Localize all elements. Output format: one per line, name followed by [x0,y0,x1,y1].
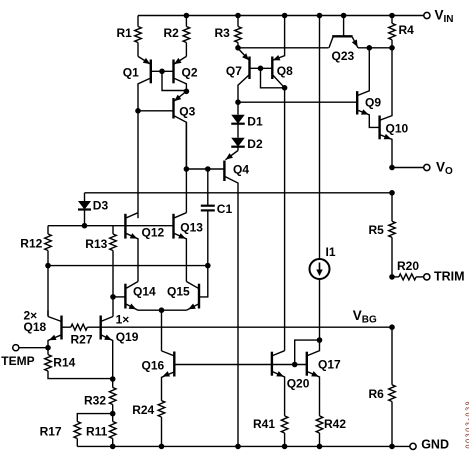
node: Q3 collector junction [184,166,190,172]
node: Q23 emitter junction [367,45,373,51]
svg-text:R2: R2 [164,26,180,40]
svg-text:TEMP: TEMP [1,354,34,368]
svg-text:R42: R42 [324,417,346,431]
wire: Q16/Q20/Q17 base rail [174,364,306,366]
svg-text:Q8: Q8 [277,64,293,78]
svg-text:R14: R14 [53,356,75,370]
svg-text:R5: R5 [369,223,385,237]
svg-text:Q3: Q3 [179,104,195,118]
wire: Q14/Q15 base bias [48,265,208,267]
node: R20 junction [389,274,395,280]
transistor Q18 (NPN mirrored) [48,310,62,347]
transistor Q17 (NPN, diode-connected) [295,340,341,416]
transistor Q3 (PNP) [138,91,196,169]
transistor Q1 (PNP) [123,56,151,110]
transistor Q19 (NPN) [101,297,139,380]
svg-text:Q2: Q2 [182,66,198,80]
transistor Q15 (NPN mirrored) [167,266,208,311]
transistor Q14 (NPN) [113,282,156,311]
resistor R4 [389,16,414,48]
svg-text:V: V [436,160,445,175]
svg-text:R6: R6 [369,387,385,401]
transistor Q4 (PNP) [208,151,250,447]
resistor R13 [85,226,116,297]
svg-text:Q16: Q16 [142,358,165,372]
svg-text:Q19: Q19 [116,330,139,344]
resistor R11 [86,414,116,447]
svg-text:Q13: Q13 [180,220,203,234]
svg-text:Q20: Q20 [287,377,310,391]
transistor Q16 (NPN mirrored) [142,351,175,401]
svg-text:R27: R27 [71,333,93,347]
svg-text:R3: R3 [215,26,231,40]
svg-text:IN: IN [444,14,454,25]
transistor Q10 (NPN) [380,48,409,168]
diode D2 [231,124,263,151]
svg-text:R41: R41 [253,417,275,431]
node: V_O junction [389,165,395,171]
node: rail junction dots [184,13,395,19]
label 2x Q18 [24,309,47,334]
label V_BG [353,308,377,326]
node: Q2 collector / Q3 emitter [184,89,190,95]
wire: Q8 collector column down to Q20 [284,88,286,351]
node: R32 bottom junction [110,411,116,417]
node: R3 bottom / Q7 emitter [235,45,241,51]
svg-text:I1: I1 [326,245,336,259]
node: V_BG junction [389,324,395,330]
node: C1 bottom / Q15 base junction [205,263,211,269]
node: Q7/Q8 base junction [258,66,264,72]
wire: Q14/Q15 common emitters [138,309,186,311]
svg-text:GND: GND [421,437,449,451]
svg-text:Q1: Q1 [123,66,139,80]
resistor R24 [132,401,165,447]
node: Q14 base / R13 junction [110,294,116,300]
node: R14 / Q19 emitter junction [110,376,116,382]
svg-text:1×: 1× [116,313,130,327]
resistor R20 and terminal TRIM [392,259,465,283]
resistor R12 [20,226,51,266]
transistor Q20 (NPN) [272,351,310,416]
svg-text:Q9: Q9 [365,95,381,109]
resistor R42 [316,416,346,447]
terminal GND [410,437,449,451]
svg-text:Q17: Q17 [318,357,341,371]
resistor R17 [40,414,113,447]
node: ground rail junction dots [110,444,395,450]
node: D3 cathode junction [82,223,88,229]
resistor R27 [62,324,101,346]
node: C1 top junction [205,166,211,172]
svg-text:R4: R4 [399,23,415,37]
V_IN power rail [138,15,424,17]
svg-text:O: O [445,166,453,177]
resistor R6 [369,327,396,446]
svg-text:R24: R24 [132,403,154,417]
svg-text:Q10: Q10 [386,121,409,135]
svg-text:R1: R1 [117,26,133,40]
wire: column A (Q1 collector down to Q12) [137,111,139,213]
wire: Q7-Q8 base tie [250,68,285,88]
svg-text:C1: C1 [217,202,233,216]
wire: Q3 collector to Q4 base [186,168,207,170]
node: TEMP / R14 junction [45,345,51,351]
wire: I1 column from rail [319,16,321,260]
transistor Q2 (PNP) [174,56,198,91]
terminal TEMP [1,345,48,368]
transistor Q13 (NPN) [174,122,204,281]
svg-text:Q4: Q4 [233,162,249,176]
terminal V_O [392,160,453,178]
transistor Q12 (NPN) [125,213,164,282]
svg-text:Q14: Q14 [133,284,156,298]
wire: emitter node down to Q16 collector [161,310,163,351]
wire: Q23 emitter to R4 bottom [358,47,392,49]
resistor R5 [369,193,396,277]
node: Q17 collector junction [317,337,323,343]
resistor R2 [164,16,190,57]
resistor R3 [215,16,242,48]
svg-text:BG: BG [362,314,377,325]
diode D1 [231,102,263,128]
svg-text:V: V [353,308,362,323]
transistor Q9 (NPN) [357,48,381,128]
node: Q8 collector junction [282,85,288,91]
svg-text:R11: R11 [86,425,108,439]
node: common emitter junction [159,307,165,313]
svg-text:R12: R12 [20,237,42,251]
capacitor C1 [201,169,233,266]
svg-text:Q7: Q7 [226,64,242,78]
svg-text:D2: D2 [247,137,263,151]
wire: Q1-Q2 base tie [151,71,187,90]
node: R12 bottom junction [45,263,51,269]
resistor R14 [45,348,113,379]
terminal V_IN [424,8,454,26]
GND rail [77,445,410,447]
svg-text:Q15: Q15 [167,284,190,298]
svg-text:Q12: Q12 [142,225,165,239]
svg-text:D1: D1 [247,114,263,128]
wire: D2 cathode to Q4 emitter [237,147,239,151]
transistor Q7 (PNP) [226,49,250,103]
svg-text:R32: R32 [84,394,106,408]
figure number (rotated) [465,400,469,449]
svg-text:00303-039: 00303-039 [465,400,469,449]
svg-text:R20: R20 [397,259,419,273]
node: comp wire to R5 column [389,190,395,196]
svg-text:R13: R13 [85,237,107,251]
node: R4 bottom junction [389,45,395,51]
transistor Q8 (PNP) [272,16,293,88]
wire: R12 node down to Q18 collector [47,266,49,317]
resistor R1 [117,16,142,57]
resistor R41 [253,416,288,447]
svg-text:D3: D3 [93,199,109,213]
node: Q1/Q2 base junction [159,69,165,75]
svg-text:Q23: Q23 [332,49,355,63]
wire: Q7 collector to Q9 base [238,101,357,103]
label 1x [116,313,130,327]
svg-text:V: V [435,8,444,23]
wire: R3 to Q23 collector [238,47,329,49]
transistor Q23 (NPN, rotated) [329,16,358,63]
wire: D3 cathode base bias rail [48,225,174,227]
wire: compensation rail D3 to R5 column [85,192,393,194]
node: Q17 base junction [292,362,298,368]
current source I1 [310,245,336,340]
wire: V_BG rail [101,326,392,328]
svg-text:TRIM: TRIM [434,269,465,283]
node: Q7 collector / D1 anode [235,99,241,105]
diode D3 [78,193,108,226]
node: Q3 base junction [135,108,141,114]
svg-text:Q18: Q18 [24,320,47,334]
resistor R32 [84,379,116,414]
svg-text:R17: R17 [40,425,62,439]
